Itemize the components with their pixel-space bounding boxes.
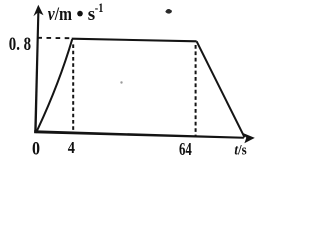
svg-text:4: 4 [68, 138, 75, 157]
svg-text:0. 8: 0. 8 [9, 34, 31, 55]
dashed horizontal at v=0.8 [37, 37, 70, 39]
dashed vertical at t=4 [72, 44, 74, 132]
svg-text:0: 0 [32, 139, 40, 159]
y-axis arrowhead [33, 5, 43, 16]
dashed vertical at t=64 [195, 45, 197, 137]
x-axis arrowhead [243, 133, 255, 143]
svg-text:-1: -1 [95, 1, 104, 15]
rising line (0,0)-(4,0.8) [36, 39, 72, 133]
faint speck left [120, 81, 122, 83]
svg-text:t/s: t/s [234, 143, 246, 159]
svg-text:v/m: v/m [48, 4, 72, 25]
descending line [197, 41, 245, 137]
ink speck top [165, 9, 172, 14]
svg-text:64: 64 [179, 139, 192, 159]
y-axis shaft [34, 12, 39, 133]
label dot of v/m·s [77, 11, 83, 17]
x-axis shaft [34, 130, 244, 139]
top line (4,0.8)-(64,0.8) [72, 39, 197, 42]
